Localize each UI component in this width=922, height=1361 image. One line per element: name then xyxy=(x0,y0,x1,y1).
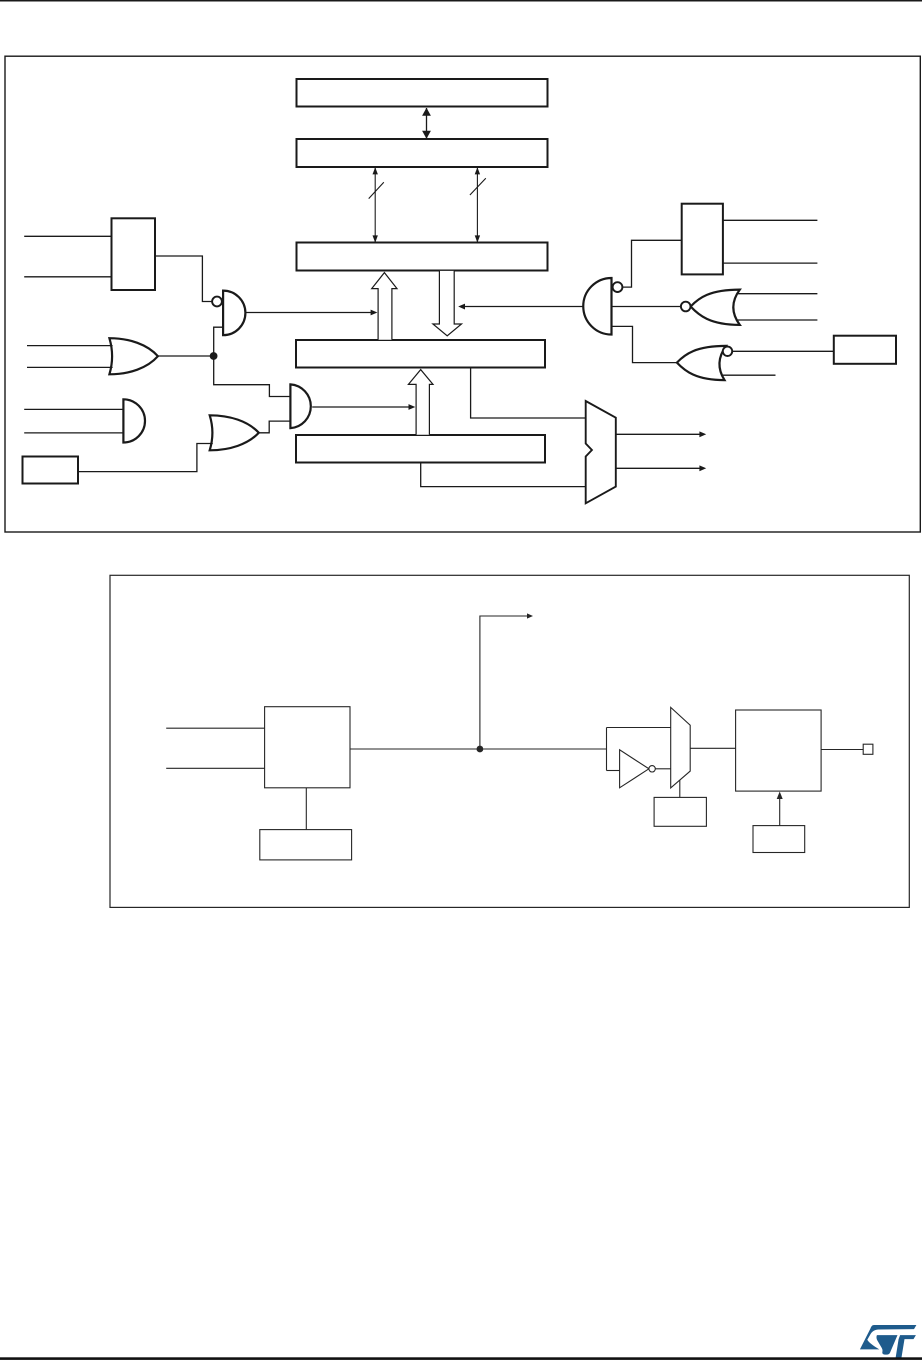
wire: U3 output line 1 xyxy=(723,219,818,221)
wire: O2 output to gate A2 lower input xyxy=(258,421,291,433)
and-gate A2 xyxy=(290,384,310,428)
wire: G6 lower input stub xyxy=(721,374,776,376)
wire: U1 input 2 xyxy=(24,276,111,278)
nor-gate G5 (mirrored, output left with bubble) xyxy=(691,290,740,325)
hollow down arrow (R3 to R4) xyxy=(433,271,462,336)
block R2 (second bus register) xyxy=(297,139,548,167)
arrow: A1 output into up-arrow xyxy=(246,312,371,314)
wire: R4 bottom to mux M1 upper input xyxy=(471,368,586,418)
arrow: mux M1 output 1 xyxy=(616,433,700,435)
double arrowhead R1-R2 top xyxy=(422,108,431,116)
block L1 (bottom label box) xyxy=(260,830,352,860)
hollow up arrow 2 (R5 to R4) xyxy=(408,370,433,435)
wire: B1 to label block L1 xyxy=(305,788,307,830)
node N2 junction dot xyxy=(477,746,484,753)
wire: B1 input 2 xyxy=(166,767,264,769)
and-gate A1 xyxy=(223,291,245,336)
block B1 (oscillator block) xyxy=(265,707,350,788)
or-gate O1 xyxy=(109,338,157,374)
footer rule xyxy=(0,1357,922,1360)
bus arrow A heads xyxy=(373,167,378,174)
arrow: gate A4 output left into down-arrow xyxy=(464,306,583,308)
pin P1 (output pad) xyxy=(863,744,873,754)
wire: U2 output to gate O2 xyxy=(78,444,213,472)
figure 2 frame xyxy=(110,575,909,907)
wire: mux M2 output to block B2 xyxy=(690,747,735,749)
wire: main clock net xyxy=(350,748,607,750)
wire: B2 output xyxy=(821,749,863,751)
wire: V1 output to mux M2 xyxy=(655,768,670,770)
block R3 (data register high) xyxy=(297,243,548,271)
bubble on G6 top input xyxy=(723,347,732,356)
bus slash A xyxy=(369,182,384,198)
wire: U1 input 1 xyxy=(24,235,111,237)
wire: B1 input 1 xyxy=(166,727,264,729)
or-gate O2 xyxy=(210,415,259,450)
wire: node N1 up to A1 lower input xyxy=(214,327,223,356)
header rule xyxy=(0,0,922,2)
arrow: L3 up to B2 xyxy=(779,798,781,826)
wire: bus arrow A shaft xyxy=(374,168,376,243)
wire: branch into inverter xyxy=(607,770,620,772)
block B2 (divider block) xyxy=(736,710,822,791)
ST logo xyxy=(860,1325,917,1358)
block R5 (data register low) xyxy=(296,435,545,463)
wire: U3 output line 2 xyxy=(723,262,818,264)
block L3 (bottom-right box) xyxy=(753,826,805,853)
block U3 (top-right block) xyxy=(682,204,723,275)
wire: A3 input 1 xyxy=(24,408,123,410)
bus slash B xyxy=(470,178,486,195)
wire: A4 lower input from gate G6 xyxy=(612,326,677,362)
wire: bus arrow B shaft xyxy=(476,168,478,243)
wire: O1 output to node N1 xyxy=(157,355,214,357)
figure 1 frame xyxy=(5,56,920,532)
and-gate A4 (mirrored, output left) xyxy=(583,278,611,335)
block L2 (mux select box) xyxy=(654,797,706,826)
and-gate A3 (half-disc) xyxy=(123,399,145,442)
inverter V1 xyxy=(620,750,649,788)
wire: G5 input 1 xyxy=(737,293,818,295)
block R1 (top bus register) xyxy=(297,79,548,107)
wire: R1-R2 double arrow shaft xyxy=(426,108,428,139)
bubble on G5 output xyxy=(681,302,691,312)
block U2 (bottom-left small block) xyxy=(23,457,79,484)
bus arrow B heads xyxy=(475,167,480,174)
hollow up arrow 1 (R4 to R3) xyxy=(372,273,397,340)
wire: A3 input 2 xyxy=(24,432,123,434)
wire: O1 input 2 xyxy=(27,366,113,368)
wire: U1 output to gate A1 bubble xyxy=(155,256,212,302)
bubble on V1 output xyxy=(649,766,655,772)
wire: R5 bottom to mux M1 lower input xyxy=(421,463,586,487)
wire: G6 bubble to block U4 xyxy=(732,350,834,352)
wire: A4 bubble to block U3 xyxy=(622,240,681,287)
bubble on A4 top input xyxy=(613,282,623,292)
bubble on A1 input xyxy=(212,297,222,307)
wire: branch vertical before inverter xyxy=(606,728,608,771)
wire: gate G5 output to A4 middle input xyxy=(612,306,681,308)
block R4 (shift register) xyxy=(296,340,545,368)
or-gate G6 (mirrored, output left, bubbled top input) xyxy=(677,346,726,380)
mux M2 xyxy=(671,707,691,788)
double arrowhead R1-R2 bottom xyxy=(422,131,431,139)
arrow: mux M1 output 2 xyxy=(616,467,700,469)
arrow: A2 output into up-arrow 2 xyxy=(312,406,409,408)
wire: node N1 down to gate A2 upper input xyxy=(214,356,291,397)
wire: O1 input 1 xyxy=(27,345,113,347)
wire: bypass branch to mux M2 xyxy=(607,727,671,729)
wire: mux M2 select xyxy=(679,780,681,797)
mux M1 xyxy=(586,401,616,503)
wire: G5 input 2 xyxy=(737,319,818,321)
block U4 (right small block) xyxy=(834,336,896,364)
block U1 (top-left control block) xyxy=(112,218,156,290)
node N1 junction dot xyxy=(210,352,218,360)
arrow: branch up from node N2 xyxy=(480,616,528,749)
